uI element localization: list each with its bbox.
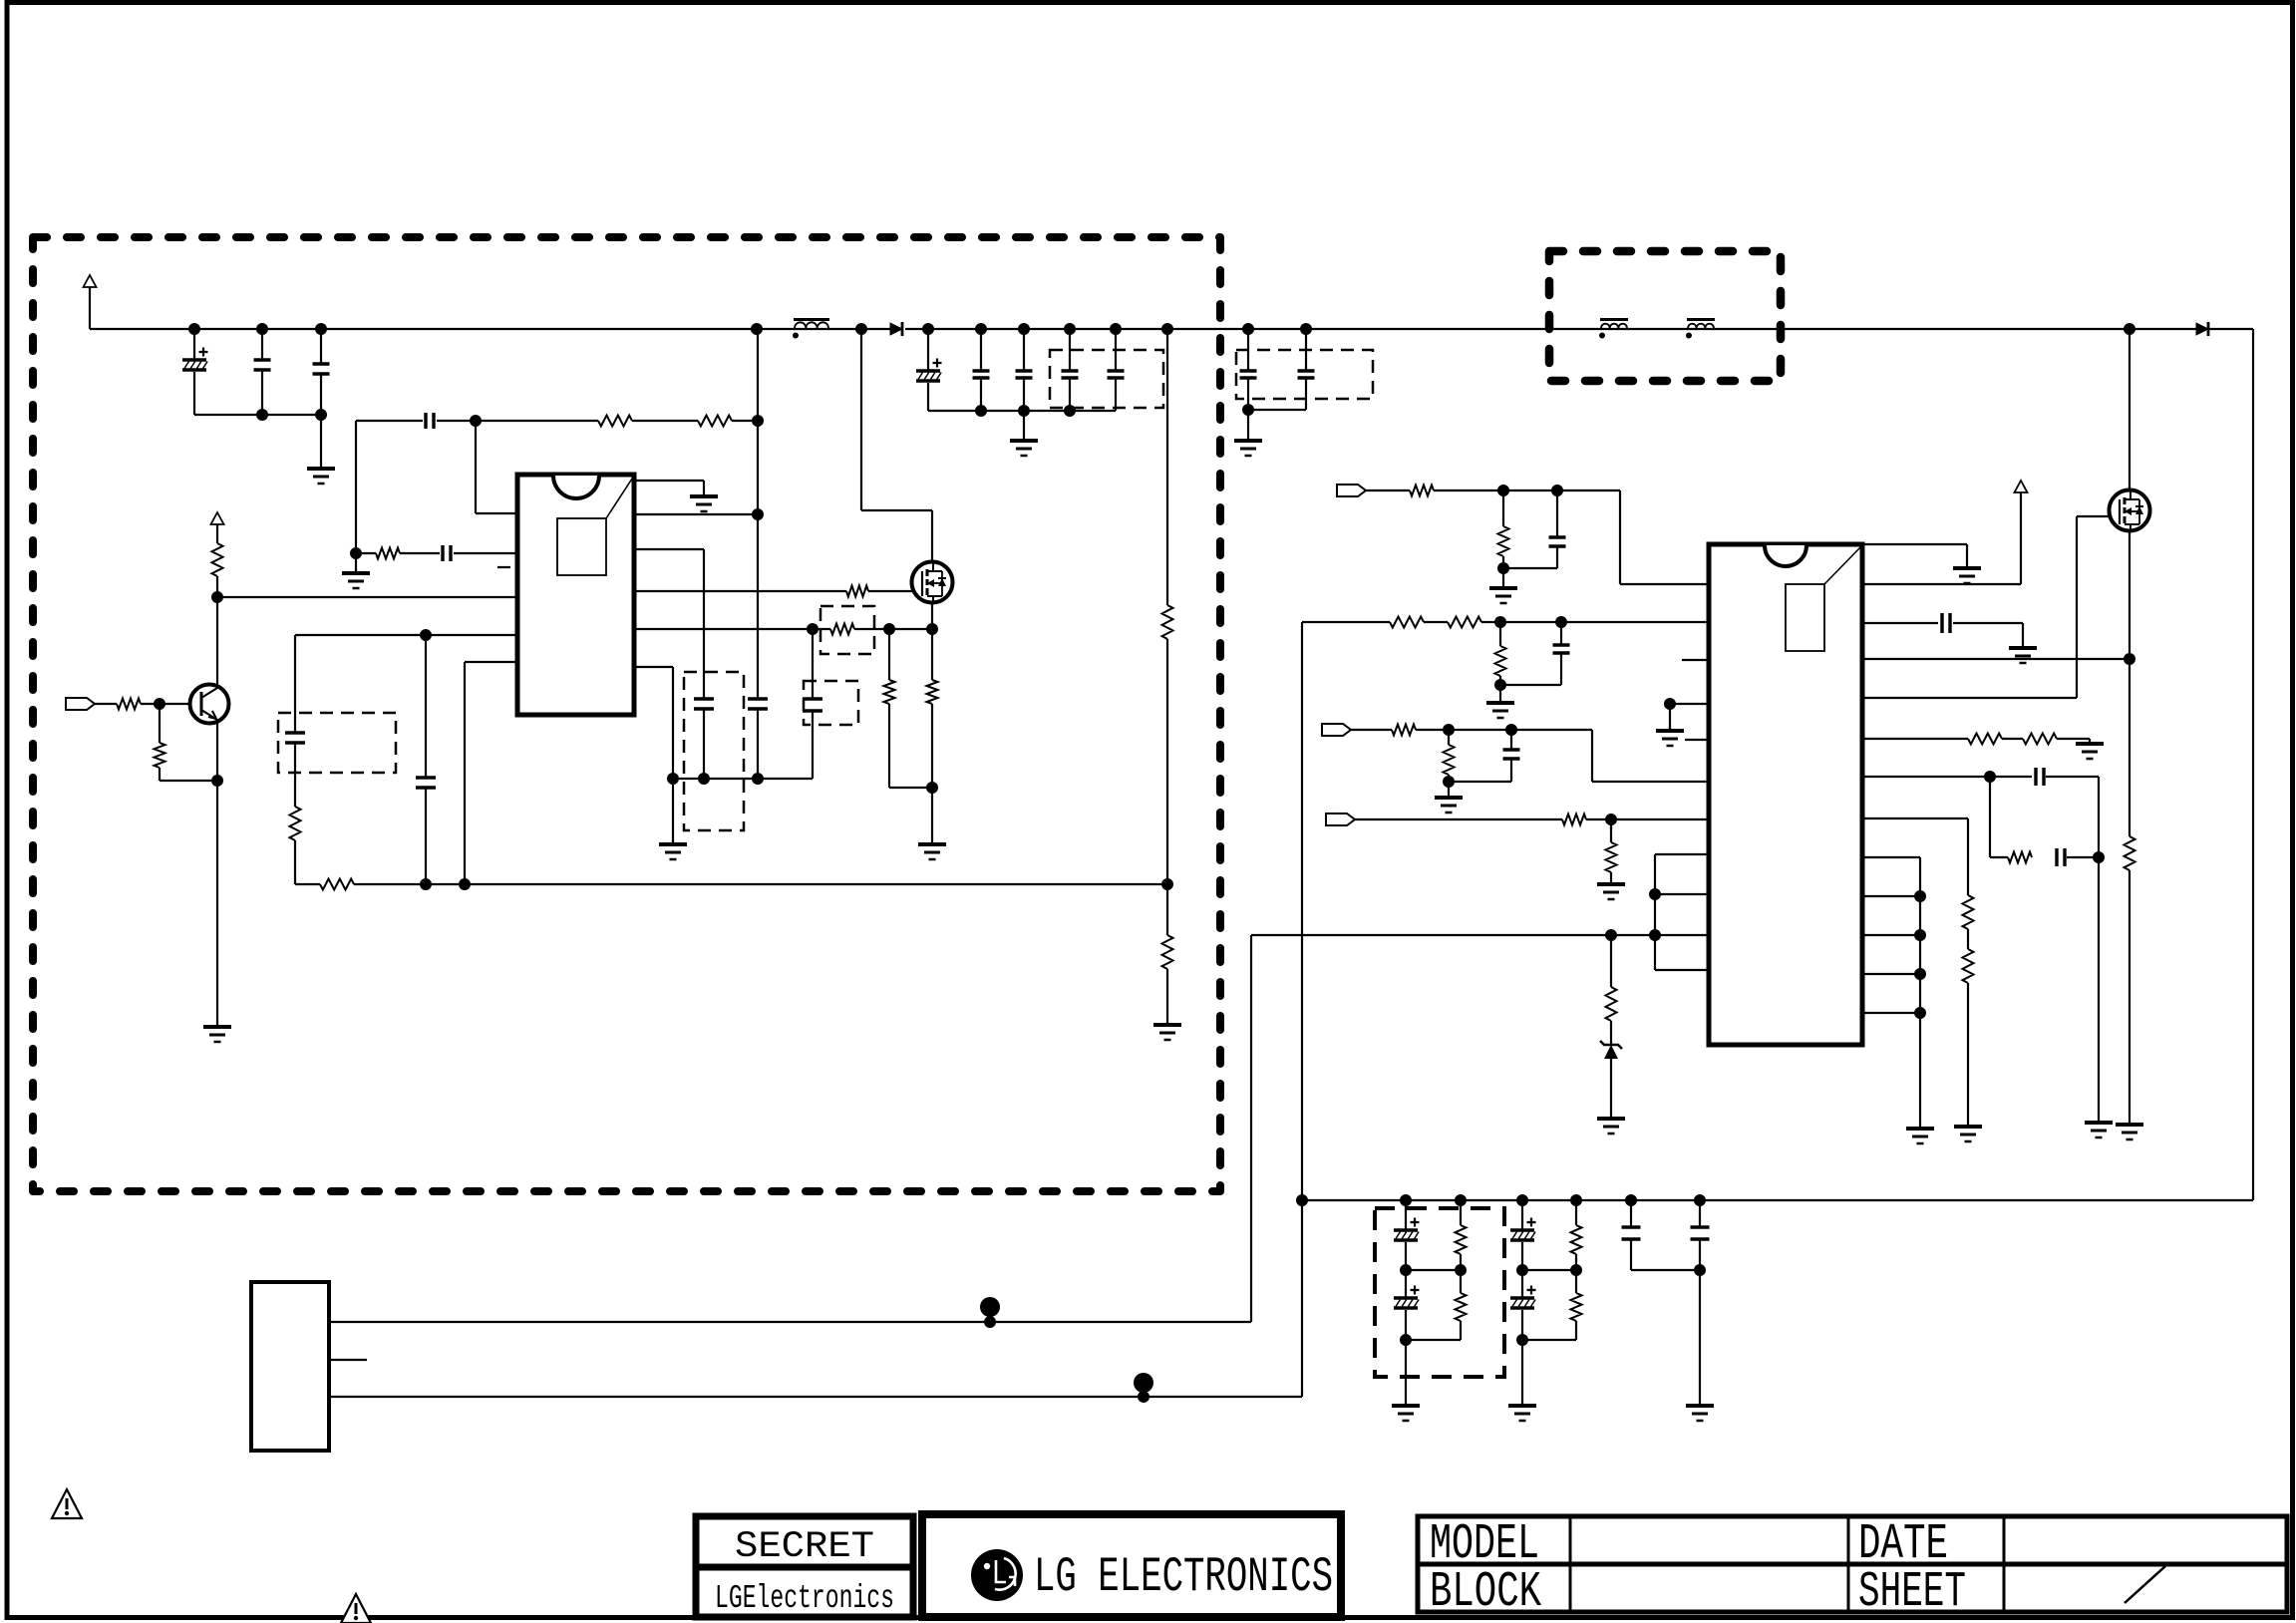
- svg-text:SECRET: SECRET: [735, 1526, 874, 1568]
- svg-text:SHEET: SHEET: [1858, 1564, 1966, 1621]
- svg-text:LG ELECTRONICS: LG ELECTRONICS: [1034, 1549, 1333, 1605]
- svg-text:LGElectronics: LGElectronics: [715, 1580, 894, 1617]
- svg-text:BLOCK: BLOCK: [1430, 1564, 1541, 1621]
